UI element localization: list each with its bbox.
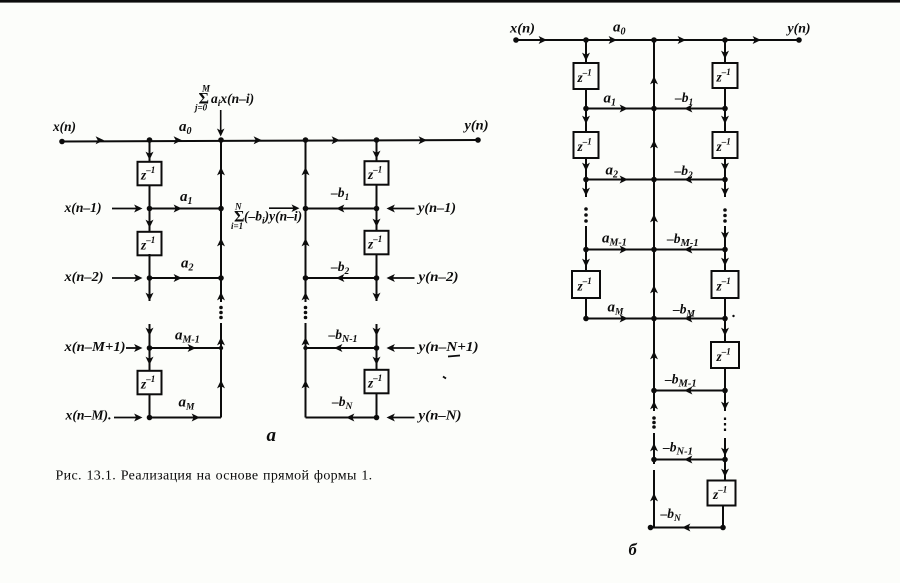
svg-text:x(n): x(n) (52, 119, 76, 134)
svg-text:a: a (267, 425, 277, 446)
svg-text:x(n–2): x(n–2) (63, 269, 103, 284)
svg-text:i=1: i=1 (231, 221, 243, 231)
svg-text:j=0: j=0 (193, 103, 208, 113)
svg-text:x(n–M+1): x(n–M+1) (63, 339, 125, 354)
svg-text:x(n–M).: x(n–M). (64, 407, 111, 422)
svg-text:–b1: –b1 (674, 90, 693, 108)
svg-text:y(n–N): y(n–N) (416, 408, 461, 423)
svg-text:aix(n–i): aix(n–i) (211, 91, 254, 109)
svg-text:x(n): x(n) (509, 21, 535, 36)
svg-text:y(n): y(n) (462, 118, 488, 133)
svg-text:a0: a0 (613, 20, 626, 38)
svg-text:a1: a1 (604, 91, 617, 109)
svg-text:aM-1: aM-1 (602, 231, 627, 249)
svg-text:–bN: –bN (660, 506, 683, 524)
svg-text:aM: aM (608, 300, 625, 318)
svg-text:(–bi)y(n–i): (–bi)y(n–i) (244, 209, 302, 227)
svg-text:Рис. 13.1. Реализация на основ: Рис. 13.1. Реализация на основе прямой ф… (56, 469, 373, 484)
svg-text:–bN-1: –bN-1 (328, 327, 358, 345)
svg-text:aM-1: aM-1 (175, 328, 200, 346)
svg-text:–b1: –b1 (330, 185, 349, 203)
svg-text:y(n–N+1): y(n–N+1) (416, 339, 478, 354)
svg-text:x(n–1): x(n–1) (63, 200, 101, 215)
svg-text:–bM-1: –bM-1 (666, 231, 699, 249)
svg-text:–bN-1: –bN-1 (662, 440, 693, 458)
svg-text:a2: a2 (606, 163, 619, 181)
svg-text:б: б (629, 540, 638, 559)
svg-text:–b2: –b2 (330, 259, 350, 277)
svg-text:–bN: –bN (331, 394, 354, 412)
svg-text:–bM: –bM (672, 302, 696, 320)
svg-text:y(n–2): y(n–2) (416, 269, 458, 284)
svg-text:aM: aM (179, 395, 196, 413)
svg-text:y(n): y(n) (785, 21, 810, 36)
svg-text:–bM-1: –bM-1 (664, 372, 697, 390)
svg-text:–b2: –b2 (674, 163, 694, 181)
svg-text:a0: a0 (179, 119, 192, 137)
svg-text:a2: a2 (181, 256, 194, 274)
svg-text:y(n–1): y(n–1) (416, 200, 456, 215)
svg-text:a1: a1 (180, 189, 193, 207)
